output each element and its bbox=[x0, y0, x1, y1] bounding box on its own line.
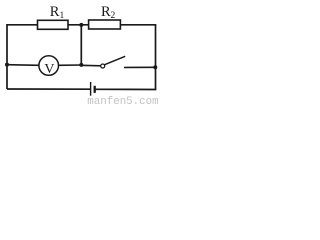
wire bottom: battery to right corner bbox=[96, 88, 157, 90]
wire top: R2 to right corner bbox=[120, 24, 156, 26]
op voltmeter V1 circle bbox=[39, 56, 59, 76]
wire middle: node B to switch bbox=[81, 64, 100, 67]
svg-text:R: R bbox=[101, 4, 111, 20]
wire right vertical bbox=[155, 25, 157, 90]
node right junction dot on right wire bbox=[153, 65, 157, 69]
wire middle: voltmeter to node B bbox=[59, 64, 82, 66]
battery BT1 short plate (-) bbox=[94, 86, 96, 93]
switch S1 pivot circle bbox=[101, 64, 105, 68]
switch S1 lever (open) bbox=[105, 56, 126, 64]
svg-text:2: 2 bbox=[111, 11, 116, 21]
svg-text:manfen5.com: manfen5.com bbox=[87, 96, 158, 106]
node A junction dot (top, between R1 and R2) bbox=[79, 23, 83, 27]
wire left vertical bbox=[6, 25, 8, 89]
wire top: R1 to node A bbox=[68, 24, 89, 26]
svg-text:R: R bbox=[50, 4, 60, 20]
svg-text:1: 1 bbox=[60, 11, 65, 21]
battery BT1 long plate (+) bbox=[90, 82, 92, 96]
resistor R2 bbox=[89, 20, 121, 29]
wire middle: switch to right wire bbox=[124, 66, 156, 68]
node B junction dot (below node A) bbox=[79, 63, 83, 67]
wire top: left corner to R1 bbox=[6, 24, 38, 26]
wire middle branch: vertical from node A down to node B bbox=[80, 25, 82, 65]
svg-text:V: V bbox=[44, 62, 54, 77]
wire bottom: left corner to battery bbox=[7, 88, 90, 90]
resistor R1 bbox=[38, 20, 69, 29]
wire middle: left wire to voltmeter bbox=[7, 64, 39, 67]
node left junction dot on left wire bbox=[5, 63, 9, 67]
